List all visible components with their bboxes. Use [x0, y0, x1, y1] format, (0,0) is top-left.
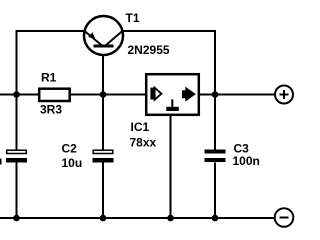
junction ground rail / IC1 [167, 215, 174, 222]
op-amp U1 / voltage regulator IC1 box [146, 74, 199, 115]
wire R1 to IC1 input [71, 94, 145, 96]
minus output terminal [275, 208, 294, 227]
svg-text:100n: 100n [233, 154, 260, 168]
wire IC1 output to plus terminal [200, 94, 275, 96]
wire top rail right [123, 30, 216, 32]
wire right vertical lower (C3 to ground rail) [214, 163, 216, 219]
svg-text:T1: T1 [126, 11, 140, 25]
junction node in/R1 [13, 91, 20, 98]
wire right vertical upper [214, 30, 216, 150]
junction ground rail / C3 [212, 215, 219, 222]
junction ground rail / C2 [100, 215, 107, 222]
plus output terminal [275, 86, 293, 104]
junction ground rail / C1 [13, 215, 20, 222]
capacitor C3 (100n) [205, 150, 226, 163]
transistor T1 (2N2955 PNP) [84, 16, 123, 55]
wire top rail left [16, 30, 85, 32]
svg-text:10u: 10u [62, 156, 83, 170]
junction base node [100, 91, 107, 98]
wire base stem / C2 top lead [102, 46, 104, 150]
capacitor C1 (electrolytic, cropped at left edge) [6, 150, 27, 162]
wire ground rail [0, 217, 275, 219]
label fragment at left edge [0, 159, 2, 165]
wire left vertical upper (node in) [16, 30, 18, 150]
svg-text:IC1: IC1 [131, 120, 150, 134]
wire input left to R1 [0, 94, 38, 96]
resistor R1 [39, 89, 69, 101]
wire left vertical lower (C1 to ground rail) [16, 163, 18, 219]
wire C2 bottom lead [102, 163, 104, 219]
svg-text:78xx: 78xx [130, 136, 157, 150]
capacitor C2 (electrolytic 10u) [93, 150, 114, 162]
svg-text:3R3: 3R3 [40, 103, 62, 117]
junction output node [212, 91, 219, 98]
wire IC1 ground pin [170, 115, 172, 218]
svg-text:R1: R1 [41, 70, 57, 84]
svg-text:2N2955: 2N2955 [128, 43, 170, 57]
svg-text:C2: C2 [62, 142, 78, 156]
